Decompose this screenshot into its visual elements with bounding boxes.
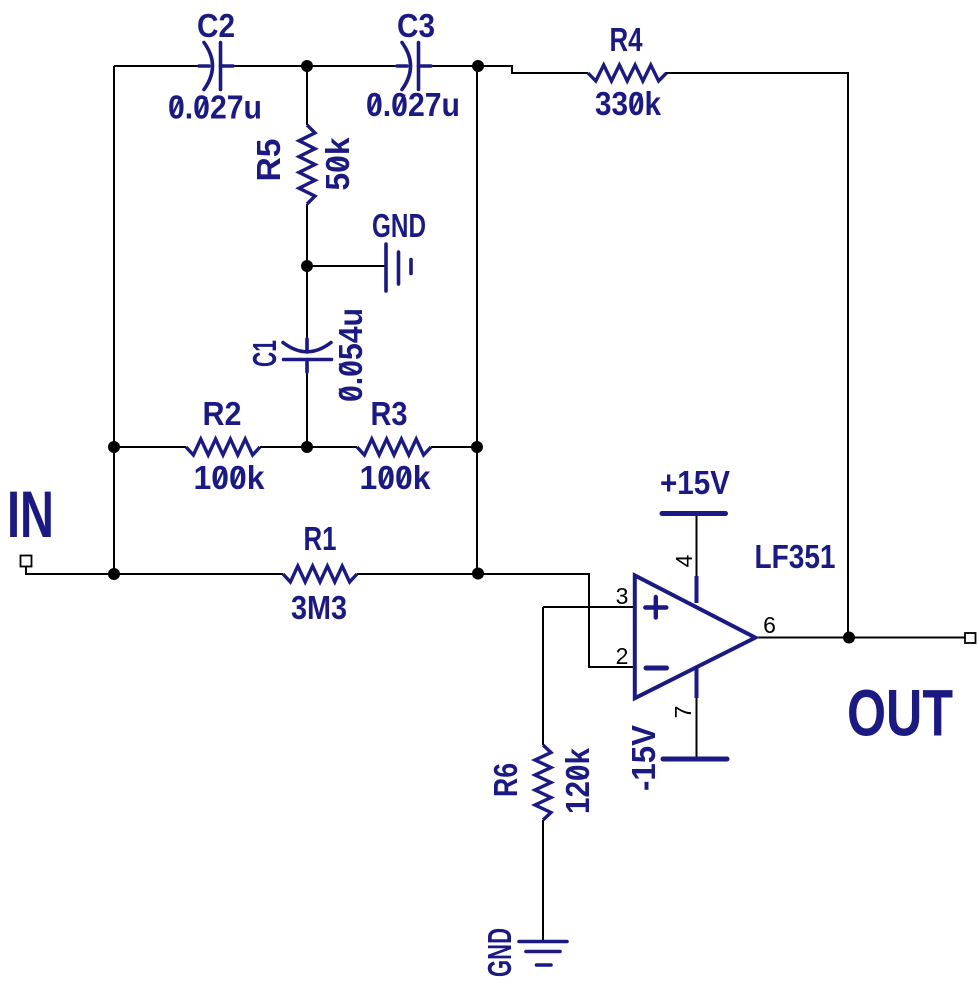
wire: op-amp output to OUT terminal [756,637,966,639]
capacitor C3 [397,43,431,90]
resistor R2 [186,439,260,455]
svg-text:0.027u: 0.027u [366,86,460,123]
node: mid center junction [301,441,313,453]
svg-text:120k: 120k [559,747,596,814]
zero of 330k [632,94,641,113]
zeros of 0.027u (C2) [172,97,181,116]
svg-text:R3: R3 [371,395,408,432]
svg-text:IN: IN [7,477,54,551]
wire: right vertical rail [476,66,478,574]
svg-text:R6: R6 [487,763,524,797]
svg-text:OUT: OUT [847,676,953,750]
svg-text:C2: C2 [197,7,235,44]
node: output junction [843,632,855,644]
op-amp plus sign [645,597,666,618]
svg-text:R2: R2 [203,395,242,432]
op-amp U1 LF351 triangle [635,575,756,698]
node: ground tap junction [301,260,313,272]
wire: tap to ground [307,265,386,267]
node: IN junction [108,568,120,580]
svg-text:7: 7 [670,706,696,719]
wire: node to inverting input [477,574,635,667]
wire: top bus from left vertical to C2 [114,65,200,67]
wire: left vertical rail [113,66,115,574]
zeros of 100k (R2) [216,468,225,487]
svg-text:GND: GND [481,928,518,977]
svg-text:0.054u: 0.054u [332,308,369,402]
op-amp pin 4 stub [695,576,699,603]
node: left rail mid junction [108,441,120,453]
svg-text:C1: C1 [246,340,283,367]
wire: node to R5 top [306,66,308,125]
resistor R6 [535,745,551,820]
svg-text:3M3: 3M3 [291,589,347,626]
terminal OUT square [965,633,976,643]
zero of 120k (rotated) [568,769,587,778]
capacitor C1 [283,339,332,372]
wire: R6 bottom to ground [542,820,544,941]
node: R1 right junction [472,568,484,580]
op-amp pin 7 stub [695,667,699,698]
svg-text:6: 6 [763,612,776,638]
wire: C1 bottom to mid node [306,372,308,447]
zeros of 0.027u (C3) [370,95,379,114]
wire: R5 bottom to C1 top [306,204,308,339]
resistor R4 [588,65,667,81]
-15V supply bar [663,757,727,762]
resistor R1 [283,566,357,582]
svg-text:2: 2 [616,643,629,669]
wire: IN stub and bottom rail to R1 [26,566,283,574]
ground top (rotated) [386,244,411,291]
wire: R4 right to output node vertical [666,73,848,637]
wire: pin3 node down to R6 [542,607,544,745]
+15V supply bar [662,511,726,516]
terminal IN square [21,556,32,567]
zeros of 100k (R3) [382,468,391,487]
slashed-zero marks [172,94,641,779]
svg-text:100k: 100k [194,459,266,496]
ground bottom [519,942,567,966]
wire: R3 to right rail [431,446,477,448]
svg-text:3: 3 [616,583,629,609]
svg-text:330k: 330k [595,85,662,122]
wire: C2 to C3 through node [233,65,398,67]
svg-text:4: 4 [671,554,697,567]
svg-text:GND: GND [372,207,426,244]
node: mid right junction [471,441,483,453]
capacitor C2 [199,43,233,90]
svg-text:0.027u: 0.027u [168,89,262,126]
wire: mid rail left to R2 [114,446,186,448]
resistor R5 [299,125,315,204]
wire: R1 to right node [357,573,477,575]
svg-text:R5: R5 [250,139,287,182]
node: C3 right junction [472,60,484,72]
node: C2/C3/R5 junction [301,60,313,72]
svg-text:R4: R4 [610,21,644,58]
wire: R6 top to noninverting input [543,606,635,608]
svg-text:+15V: +15V [660,464,730,501]
wire: pin 7 to -15V bar [696,698,698,759]
op-amp minus sign [646,666,667,671]
zeros of 0.054u (rotated) [339,389,358,398]
wire: R2 to R3 [260,446,357,448]
svg-text:R1: R1 [304,520,337,557]
svg-text:C3: C3 [397,7,435,44]
wire: +15V bar to pin 4 [696,514,698,577]
zero of 50k (rotated) [328,159,347,168]
wire: C3 right to R4 with jog [431,66,588,73]
svg-text:-15V: -15V [625,725,662,791]
resistor R3 [357,439,431,455]
svg-text:100k: 100k [360,459,432,496]
svg-text:LF351: LF351 [755,538,836,575]
